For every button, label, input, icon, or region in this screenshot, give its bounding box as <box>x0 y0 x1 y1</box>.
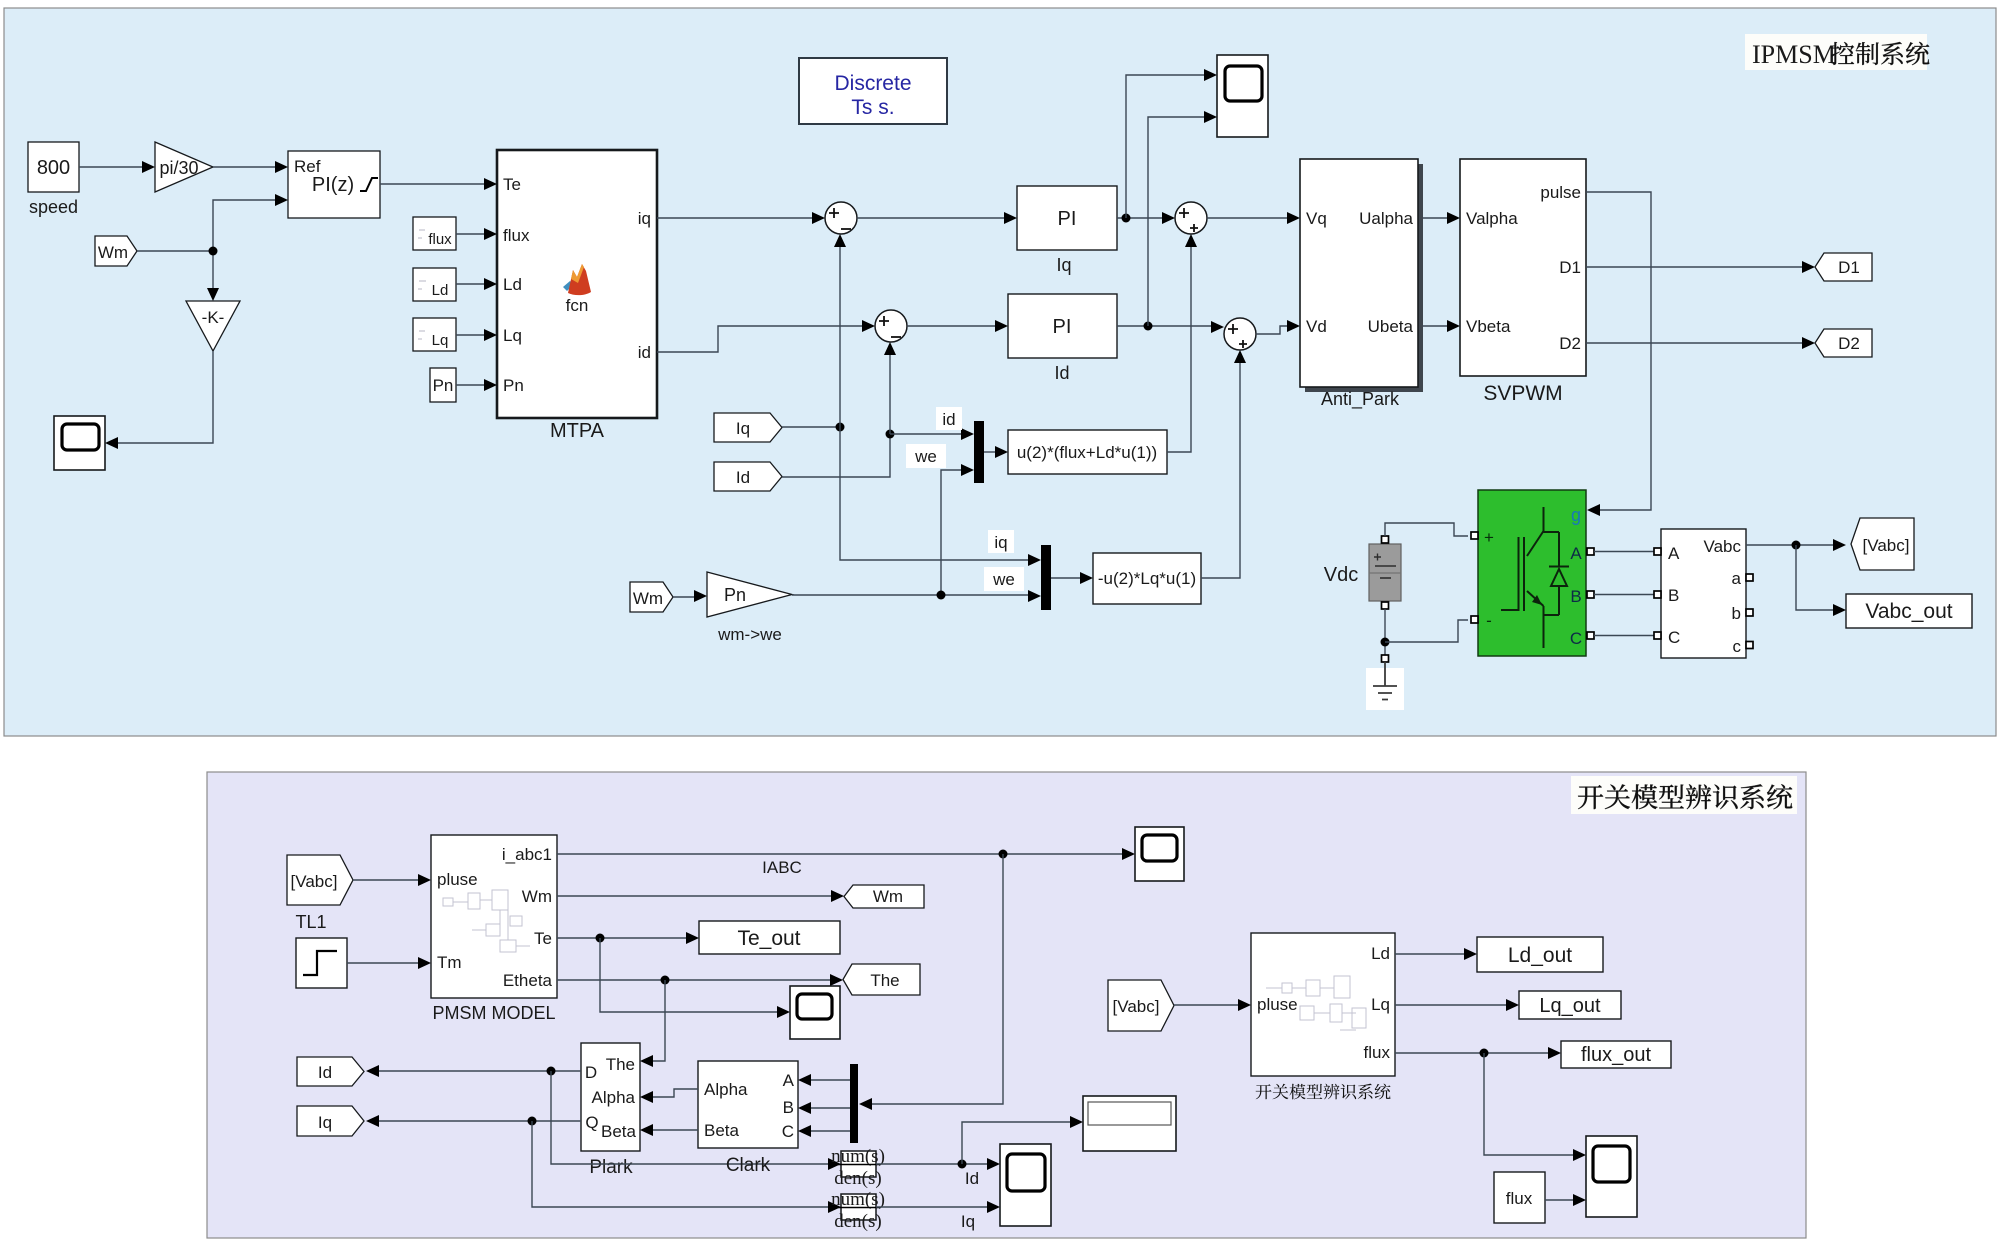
svg-text:Te_out: Te_out <box>737 927 800 950</box>
SVPWM subsystem <box>1460 159 1586 405</box>
svg-text:Beta: Beta <box>601 1122 637 1141</box>
wire sum2 to PI Id <box>907 320 1008 332</box>
Clark (Clarke transform) <box>698 1061 798 1176</box>
constant flux (2) <box>1494 1172 1545 1223</box>
wire MTPA id to sum2 <box>657 320 875 352</box>
svg-text:-: - <box>1486 611 1492 630</box>
svg-text:b: b <box>1732 604 1741 623</box>
DC source Vdc <box>1324 536 1401 609</box>
svg-text:Vdc: Vdc <box>1324 564 1358 586</box>
demux <box>850 1064 858 1143</box>
wire sum4 to AntiPark Vd <box>1256 320 1300 334</box>
outport Te_out <box>699 921 840 954</box>
step source Tm <box>296 938 347 988</box>
svg-text:flux: flux <box>1364 1043 1391 1062</box>
svg-text:Alpha: Alpha <box>592 1088 636 1107</box>
wire Id to sum2 and mux1 <box>782 342 974 477</box>
svg-text:D1: D1 <box>1838 258 1860 277</box>
svg-text:SVPWM: SVPWM <box>1483 382 1562 405</box>
wire PI(z) to MTPA Te <box>380 178 497 190</box>
gain -K- <box>186 301 240 351</box>
svg-text:Iq: Iq <box>318 1113 332 1132</box>
svg-text:Ubeta: Ubeta <box>1368 317 1414 336</box>
svg-text:800: 800 <box>37 157 70 179</box>
svg-text:Plark: Plark <box>589 1157 633 1178</box>
wire mux1 to fcn1 <box>984 446 1008 458</box>
svg-text:PMSM MODEL: PMSM MODEL <box>432 1003 555 1023</box>
constant Ld <box>413 268 456 301</box>
universal bridge (green) <box>1478 490 1586 656</box>
wires demux to Clark <box>798 1074 850 1137</box>
svg-text:Anti_Park: Anti_Park <box>1321 389 1400 410</box>
label IABC <box>762 858 802 877</box>
svg-text:Valpha: Valpha <box>1466 209 1518 228</box>
svg-text:Wm: Wm <box>633 589 663 608</box>
outport Vabc_out <box>1846 594 1972 628</box>
svg-text:Iq: Iq <box>1056 255 1071 275</box>
svg-text:fcn: fcn <box>566 296 589 315</box>
wire sum1 to PI Iq <box>857 212 1017 224</box>
svg-text:Alpha: Alpha <box>704 1080 748 1099</box>
svg-text:PI: PI <box>1058 208 1077 230</box>
MTPA MATLAB Function block <box>497 150 657 418</box>
svg-text:D1: D1 <box>1559 258 1581 277</box>
label MTPA <box>550 420 605 442</box>
svg-text:Lq_out: Lq_out <box>1539 995 1601 1017</box>
scope3 <box>1000 1144 1051 1226</box>
wire Ld to Ld_out <box>1395 948 1477 960</box>
svg-text:speed: speed <box>29 197 78 217</box>
svg-text:A: A <box>783 1071 795 1090</box>
scope2b <box>790 986 840 1039</box>
title IPMSM控制系统 <box>1745 34 1929 70</box>
outport Ld_out <box>1477 937 1603 972</box>
title 开关模型辨识系统 <box>1571 776 1797 814</box>
transfer fcn 2 <box>831 1189 885 1232</box>
svg-text:A: A <box>1570 544 1582 563</box>
svg-text:Te: Te <box>503 175 521 194</box>
svg-text:Wm: Wm <box>522 887 552 906</box>
svg-text:iq: iq <box>638 209 651 228</box>
wire fcn2 to sum4 <box>1201 350 1246 578</box>
svg-text:Discrete: Discrete <box>834 72 911 95</box>
svg-text:Clark: Clark <box>726 1155 771 1176</box>
wire we to mux1 <box>941 464 974 595</box>
three-phase VI measurement <box>1654 529 1753 658</box>
svg-text:Vd: Vd <box>1306 317 1327 336</box>
scope5 <box>1135 827 1184 881</box>
powergui Discrete Ts s. <box>799 58 947 124</box>
svg-text:Ld_out: Ld_out <box>1508 944 1572 967</box>
svg-text:B: B <box>1570 587 1581 606</box>
svg-text:The: The <box>870 971 899 990</box>
svg-text:Vabc_out: Vabc_out <box>1865 600 1952 623</box>
svg-text:PI(z): PI(z) <box>312 174 354 196</box>
svg-text:flux_out: flux_out <box>1581 1044 1651 1066</box>
goto tag [Vabc] <box>1851 518 1914 570</box>
svg-text:Wm: Wm <box>873 887 903 906</box>
svg-text:C: C <box>782 1122 794 1141</box>
wire D1 to tag <box>1586 261 1815 273</box>
svg-text:i_abc1: i_abc1 <box>502 845 552 864</box>
svg-text:Lq: Lq <box>432 332 449 349</box>
svg-text:B: B <box>1668 586 1679 605</box>
svg-text:A: A <box>1668 544 1680 563</box>
svg-text:Vabc: Vabc <box>1704 537 1742 556</box>
svg-text:Ts s.: Ts s. <box>851 96 894 119</box>
wire gain to PI(z) Ref <box>213 161 288 173</box>
wire Clark Beta to Plark <box>640 1124 698 1136</box>
label 开关模型辨识系统 (small) <box>1256 1084 1391 1100</box>
outport flux_out <box>1561 1041 1671 1068</box>
wire to scope2 input1 <box>1126 69 1217 218</box>
sum4 Vd <box>1224 318 1256 350</box>
svg-text:Wm: Wm <box>98 243 128 262</box>
svg-text:Id: Id <box>1054 363 1069 383</box>
goto tag Wm <box>844 885 924 908</box>
svg-text:flux: flux <box>503 226 530 245</box>
PI controller Id <box>1008 294 1117 383</box>
svg-text:[Vabc]: [Vabc] <box>1863 536 1910 555</box>
svg-text:[Vabc]: [Vabc] <box>291 872 338 891</box>
wire Pn to MTPA <box>456 379 497 391</box>
svg-text:Vq: Vq <box>1306 209 1327 228</box>
svg-text:we: we <box>992 570 1015 589</box>
svg-text:Te: Te <box>534 929 552 948</box>
svg-text:D2: D2 <box>1559 334 1581 353</box>
svg-text:pluse: pluse <box>1257 995 1298 1014</box>
svg-text:Pn: Pn <box>503 376 524 395</box>
wire i_abc1 to scope5 <box>557 848 1135 860</box>
svg-text:Id: Id <box>965 1169 979 1188</box>
outport Lq_out <box>1519 991 1621 1019</box>
constant 800 (speed) <box>28 142 79 217</box>
svg-text:D2: D2 <box>1838 334 1860 353</box>
wire Wm to gain Pn <box>673 590 707 602</box>
svg-text:a: a <box>1732 569 1742 588</box>
svg-text:Beta: Beta <box>704 1121 740 1140</box>
svg-text:Id: Id <box>318 1063 332 1082</box>
wire mux2 to fcn2 <box>1051 572 1093 584</box>
PI(z) speed controller block <box>288 151 380 218</box>
input tag Id (measured) <box>714 462 782 491</box>
wire Lq to MTPA <box>456 329 497 341</box>
input tag Iq (measured) <box>714 413 782 442</box>
panel: IPMSM control system area <box>4 8 1996 736</box>
svg-text:D: D <box>585 1063 597 1082</box>
wire Vdc+ to bridge <box>1385 523 1468 536</box>
svg-text:id: id <box>942 410 955 429</box>
svg-text:den(s): den(s) <box>834 1168 881 1189</box>
svg-text:Ualpha: Ualpha <box>1359 209 1413 228</box>
wire 800 to gain <box>79 161 155 173</box>
label PMSM MODEL <box>432 1003 555 1023</box>
ground <box>1366 655 1404 710</box>
svg-text:Ld: Ld <box>1371 944 1390 963</box>
svg-text:c: c <box>1733 637 1742 656</box>
wire [Vabc] to pluse <box>353 874 431 886</box>
scope4 <box>1586 1136 1637 1217</box>
svg-text:wm->we: wm->we <box>717 625 782 644</box>
svg-text:IABC: IABC <box>762 858 802 877</box>
wire -K- to scope1 <box>105 351 213 449</box>
svg-text:C: C <box>1570 629 1582 648</box>
wire step to Tm <box>347 957 431 969</box>
wires bridge ABC to measurement <box>1594 552 1657 636</box>
svg-text:The: The <box>606 1055 635 1074</box>
svg-text:TL1: TL1 <box>295 912 326 932</box>
svg-text:Ld: Ld <box>432 282 449 299</box>
Fcn -u(2)*Lq*u(1) <box>1093 553 1201 604</box>
svg-text:g: g <box>1571 505 1581 525</box>
label Iq (wire) <box>961 1212 975 1231</box>
wire Lq to Lq_out <box>1395 999 1519 1011</box>
wire PI Iq to sum3 <box>1117 212 1175 224</box>
svg-text:Lq: Lq <box>1371 995 1390 1014</box>
goto tag Id <box>297 1057 364 1086</box>
svg-text:+: + <box>1484 528 1494 547</box>
mux2 <box>1041 545 1051 610</box>
wire tf1 to scope3 and display <box>876 1116 1083 1170</box>
wire Plark Q to Iq tag and tf2 <box>366 1115 841 1213</box>
PI controller Iq <box>1017 186 1117 275</box>
wire Plark D to Id tag and tf1 <box>366 1065 841 1170</box>
panel: identification system area <box>207 772 1806 1238</box>
identification subsystem sketch <box>1266 976 1366 1030</box>
constant flux <box>413 217 456 250</box>
sum3 Vq <box>1175 202 1207 234</box>
label TL1 <box>295 912 326 932</box>
svg-text:pluse: pluse <box>437 870 478 889</box>
output tag D1 <box>1815 253 1872 281</box>
wire Te to Te_out and scope <box>557 932 790 1018</box>
constant Pn <box>430 368 456 402</box>
transfer fcn 1 <box>831 1146 885 1189</box>
wire Wm to PI(z) and -K- <box>137 194 288 301</box>
wire Wm to tag <box>557 890 844 902</box>
wire flux const to scope4 <box>1545 1194 1586 1206</box>
from tag [Vabc] (3) <box>1108 980 1174 1031</box>
wire Iq to sum1 and mux2 <box>782 234 1041 566</box>
wire i_abc1 down to demux <box>859 854 1003 1110</box>
input tag Wm <box>95 236 137 266</box>
PMSM preview sketch <box>443 890 530 952</box>
svg-text:Pn: Pn <box>433 376 454 395</box>
Fcn u(2)*(flux+Ld*u(1)) <box>1008 430 1167 474</box>
svg-text:Tm: Tm <box>437 953 462 972</box>
PMSM MODEL subsystem <box>431 835 557 998</box>
svg-text:pi/30: pi/30 <box>159 158 198 178</box>
bridge IGBT/diode icon <box>1501 507 1569 648</box>
wire flux to flux_out and scope4 <box>1395 1047 1586 1161</box>
gain pi/30 <box>155 142 213 192</box>
svg-text:Vbeta: Vbeta <box>1466 317 1511 336</box>
gain Pn (wm->we) <box>707 572 792 644</box>
goto tag Iq <box>297 1106 364 1136</box>
wire Ld to MTPA <box>456 278 497 290</box>
wire Vabc out <box>1746 539 1846 616</box>
svg-text:den(s): den(s) <box>834 1211 881 1232</box>
wire pulse to bridge g <box>1586 192 1651 516</box>
svg-text:-K-: -K- <box>202 308 225 327</box>
svg-text:iq: iq <box>994 533 1007 552</box>
wire Ualpha to Valpha <box>1423 212 1460 224</box>
wire Pn to mux2 (we) <box>792 590 1041 602</box>
svg-text:-u(2)*Lq*u(1): -u(2)*Lq*u(1) <box>1098 569 1196 588</box>
wire MTPA iq to sum1 <box>657 212 825 224</box>
input tag Wm (2) <box>630 582 673 612</box>
svg-text:PI: PI <box>1053 316 1072 338</box>
svg-text:Id: Id <box>736 468 750 487</box>
mux1 <box>974 421 984 483</box>
svg-text:C: C <box>1668 628 1680 647</box>
bridge ports <box>1471 532 1594 639</box>
label iq <box>988 530 1014 553</box>
label we (2) <box>984 567 1024 591</box>
label we (1) <box>906 444 946 468</box>
svg-text:pulse: pulse <box>1540 183 1581 202</box>
output tag D2 <box>1815 329 1872 357</box>
wire to scope2 input2 <box>1148 111 1217 326</box>
svg-text:we: we <box>914 447 937 466</box>
svg-text:id: id <box>638 343 651 362</box>
wire Clark Alpha to Plark <box>640 1089 698 1103</box>
label id <box>936 407 962 430</box>
identification subsystem <box>1251 933 1395 1076</box>
scope2 (two-input) <box>1217 55 1268 137</box>
constant Lq <box>413 318 456 351</box>
MATLAB membrane logo <box>563 264 591 295</box>
wire PI Id to sum4 <box>1117 321 1224 333</box>
label Id (wire) <box>965 1169 979 1188</box>
svg-text:Q: Q <box>585 1113 598 1132</box>
Anti_Park subsystem (with drop shadow) <box>1300 159 1423 410</box>
svg-text:[Vabc]: [Vabc] <box>1113 997 1160 1016</box>
wire [Vabc] to pluse <box>1174 999 1251 1011</box>
svg-text:Iq: Iq <box>736 419 750 438</box>
from tag [Vabc] (2) <box>287 855 353 905</box>
wire tf2 to scope3 <box>876 1201 1000 1213</box>
wire Vdc- to bridge and ground <box>1381 609 1469 655</box>
svg-text:Lq: Lq <box>503 326 522 345</box>
wire Ubeta to Vbeta <box>1423 320 1460 332</box>
svg-text:Ld: Ld <box>503 275 522 294</box>
svg-text:MTPA: MTPA <box>550 420 605 442</box>
svg-text:Iq: Iq <box>961 1212 975 1231</box>
svg-text:flux: flux <box>428 231 452 248</box>
wire sum3 to AntiPark Vq <box>1207 212 1300 224</box>
svg-text:u(2)*(flux+Ld*u(1)): u(2)*(flux+Ld*u(1)) <box>1017 443 1157 462</box>
goto tag The <box>843 964 920 995</box>
wire D2 to tag <box>1586 337 1815 349</box>
wire flux to MTPA <box>456 228 497 240</box>
svg-text:flux: flux <box>1506 1189 1533 1208</box>
sum2 id error <box>875 310 907 342</box>
wire Etheta to The tag and Plark <box>557 974 843 1067</box>
scope1 (speed scope, mirrored) <box>54 416 105 470</box>
display block <box>1083 1096 1176 1151</box>
Plark (Park transform) <box>581 1043 640 1178</box>
svg-text:IPMSM: IPMSM <box>1752 40 1836 69</box>
wire fcn1 to sum3 <box>1167 234 1197 452</box>
sum1 iq error <box>825 202 857 234</box>
svg-text:Pn: Pn <box>724 585 746 605</box>
svg-text:Etheta: Etheta <box>503 971 553 990</box>
svg-text:B: B <box>783 1098 794 1117</box>
